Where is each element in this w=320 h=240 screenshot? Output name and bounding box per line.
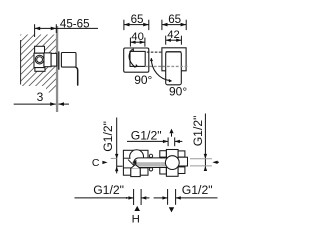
down arrow marker (169, 207, 174, 212)
svg-text:90°: 90° (169, 85, 187, 99)
rotation arc left view (129, 50, 135, 68)
svg-text:G1/2": G1/2" (101, 121, 115, 152)
handle cap square front view (130, 51, 145, 66)
svg-text:G1/2": G1/2" (191, 116, 205, 147)
escutcheon square front view (124, 48, 149, 72)
left supply block plan view (123, 150, 148, 175)
lever side view (76, 67, 78, 85)
svg-text:3: 3 (37, 90, 44, 104)
escutcheon plate right view (162, 48, 186, 71)
svg-text:90°: 90° (134, 73, 152, 87)
tile surface line (3mm) (56, 26, 58, 112)
H marker arrow (134, 206, 140, 211)
black wedge at bar left end (132, 160, 136, 165)
up arrow marker above top port (169, 129, 173, 134)
svg-text:42: 42 (167, 29, 180, 41)
bottom-left port dimension (75, 189, 150, 205)
cartridge circles side view (35, 55, 44, 64)
wall left edge (20, 40, 22, 85)
internal lines left block (123, 158, 148, 175)
dimension 45-65 (35, 24, 98, 37)
handle top edge right view (166, 51, 182, 53)
projection dashed line bottom (gray) (145, 65, 188, 67)
svg-text:65: 65 (168, 13, 181, 26)
C tick gray left (111, 157, 117, 159)
svg-text:40: 40 (131, 31, 144, 43)
svg-text:H: H (132, 213, 140, 225)
dot on line right (163, 197, 165, 199)
cartridge dome left block (130, 150, 144, 159)
bottom-right port dimension (154, 189, 218, 205)
chamfer tent left block (131, 165, 140, 169)
handle down right view (166, 52, 182, 85)
dimension 3 (tile) (14, 102, 69, 106)
svg-text:65: 65 (131, 13, 144, 26)
corner ears right block (160, 151, 185, 174)
bottom port left block (131, 168, 140, 177)
dot on line left (126, 197, 128, 199)
gray shading in bar (135, 162, 172, 166)
right outlet block plan view : central column (166, 150, 178, 177)
leader / C dimension line left (116, 118, 118, 174)
valve body side view (34, 46, 57, 71)
arrow marker right of body (212, 161, 217, 164)
svg-text:45-65: 45-65 (60, 18, 90, 31)
leader line right (204, 114, 206, 171)
escutcheon side view (58, 51, 60, 69)
svg-text:G1/2": G1/2" (93, 183, 124, 197)
svg-text:G1/2": G1/2" (131, 129, 162, 143)
dimension 65 left front view (124, 20, 149, 30)
svg-text:G1/2": G1/2" (182, 183, 213, 197)
leader underline + top port dimension (127, 137, 182, 146)
dimension 65 right front view (162, 20, 186, 30)
projection dashed line top (147, 51, 162, 53)
dimension 40 left front view (130, 38, 145, 47)
C ticks gray right (190, 158, 212, 160)
rotation arc between views (151, 58, 170, 80)
svg-text:C: C (92, 157, 100, 169)
bar into right block (160, 158, 168, 167)
side port right block (178, 157, 187, 166)
wall hatch section (0, 0, 141, 141)
dimension 42 right front view (166, 36, 182, 45)
connecting bar (capsule) (134, 158, 168, 168)
C tick black left (117, 165, 123, 167)
cartridge circle right block (165, 156, 179, 170)
handle side view (61, 53, 76, 68)
screws on bar (149, 154, 152, 157)
